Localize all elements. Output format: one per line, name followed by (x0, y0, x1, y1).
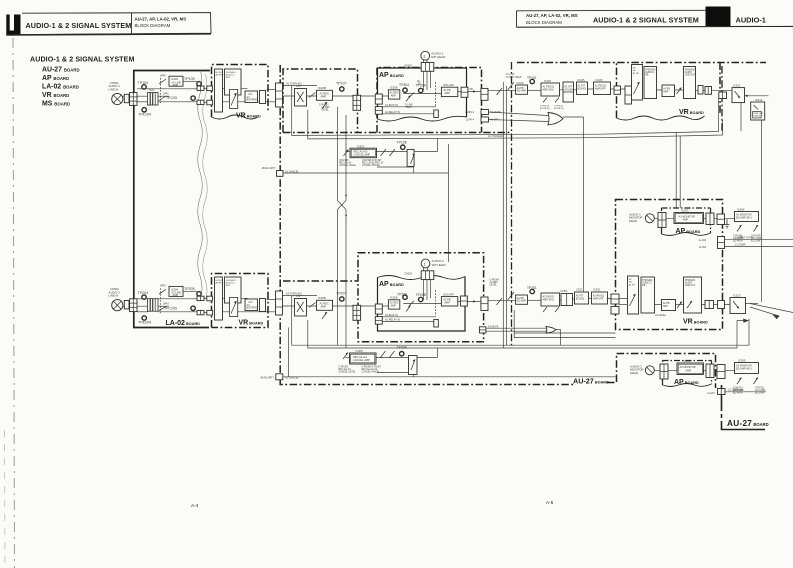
svg-text:JP42: JP42 (160, 285, 166, 288)
ground mon1 (725, 219, 730, 228)
connector AP1 out (461, 87, 468, 97)
svg-text:A2 REC: A2 REC (490, 281, 499, 284)
svg-text:JP41: JP41 (163, 93, 169, 96)
monitor1 out lines (725, 239, 793, 241)
labels monitor2 (630, 358, 766, 395)
svg-text:JP43: JP43 (163, 303, 169, 306)
rec-play head AUDIO-1 R/P HEAD (421, 51, 430, 62)
op-amp IC103 A1 PB EQ AMP MY (541, 83, 560, 96)
svg-text:AUDIO: AUDIO (685, 71, 692, 74)
svg-text:LINE IN: LINE IN (109, 87, 119, 91)
svg-text:REC A1+A2: REC A1+A2 (339, 161, 352, 164)
svg-text:A2 TURN-EQ: A2 TURN-EQ (286, 291, 302, 295)
svg-text:AMP (MY): AMP (MY) (543, 299, 555, 302)
svg-text:EQ AMP (MY): EQ AMP (MY) (736, 368, 752, 371)
svg-text:PB: PB (642, 285, 646, 287)
AP2 inner solid board (378, 277, 466, 332)
svg-text:L1-LP6: L1-LP6 (707, 393, 715, 395)
svg-text:IC106: IC106 (596, 78, 603, 82)
op-amp A1 PB AMP vr (662, 85, 675, 97)
connector CN201 (130, 299, 137, 312)
test point TP20B (419, 297, 423, 301)
svg-text:AU-27 BOARD: AU-27 BOARD (42, 67, 80, 74)
svg-text:AUDIO-1 & 2 SIGNAL SYSTEM: AUDIO-1 & 2 SIGNAL SYSTEM (30, 56, 134, 64)
selector AUDIO-1 PB block (644, 67, 657, 99)
op-amp IC204 A2 LINE AMP (169, 286, 183, 297)
svg-text:TP207: TP207 (336, 291, 347, 295)
test point TP105 (197, 82, 201, 86)
wire drops to monitor1 (675, 132, 677, 208)
svg-text:EQ AMP (MY): EQ AMP (MY) (736, 216, 752, 219)
svg-text:A2 COMP: A2 COMP (755, 389, 766, 392)
svg-text:A1 PB EQ: A1 PB EQ (554, 107, 564, 110)
switch line out select (677, 88, 682, 95)
svg-text:A2 RELAY IN: A2 RELAY IN (385, 319, 400, 322)
connector A2 cancel (276, 374, 283, 380)
svg-text:EQ LOW: EQ LOW (751, 241, 761, 243)
op-amp IC206 A2 REC AMP (388, 300, 399, 309)
svg-text:CN302: CN302 (404, 64, 412, 67)
svg-text:AP BOARD: AP BOARD (379, 281, 404, 288)
svg-text:AMP: AMP (663, 90, 669, 93)
selector AUDIO LINE OUT block (684, 67, 696, 99)
or-gate IC304 A2 mute (546, 327, 556, 333)
wire row2 VR segment (218, 297, 248, 299)
connector mon1 link (717, 214, 725, 225)
svg-text:AMP: AMP (686, 368, 692, 372)
potentiometer trims under IC203 (543, 307, 559, 312)
connector CN601 AUDIO-1 LINE IN (112, 93, 123, 104)
svg-text:CANCEL AMP: CANCEL AMP (354, 153, 371, 157)
svg-text:AMP (MY): AMP (MY) (543, 89, 555, 92)
connector J102 (197, 86, 204, 90)
svg-text:TP308: TP308 (397, 345, 407, 349)
trimmer block cancel (407, 149, 414, 166)
svg-text:LINE OUT: LINE OUT (685, 285, 696, 287)
labels row1 right (506, 73, 603, 110)
op-amp IC10B A1 REC AMP (317, 90, 333, 100)
svg-text:IC305: IC305 (356, 349, 363, 353)
svg-text:AUDIO-1: AUDIO-1 (226, 74, 236, 77)
connector A1 lpf in (481, 117, 489, 122)
svg-text:VR BOARD: VR BOARD (42, 92, 69, 99)
wire row2 to mid cluster (283, 295, 318, 297)
test point TP107 (340, 87, 344, 91)
selector AUDIO-1 REC block (225, 69, 242, 109)
test point TP308 (400, 352, 404, 356)
svg-text:LL/PA-4: LL/PA-4 (466, 119, 475, 122)
potentiometer line trap (406, 96, 411, 102)
level block A2 ATT (561, 294, 573, 306)
svg-text:A2 REC: A2 REC (216, 282, 224, 285)
svg-text:EQ LOW: EQ LOW (755, 393, 765, 395)
switch PB eq select2 (497, 292, 515, 305)
attenuator C302 A2 ATT ECHO (575, 292, 589, 304)
svg-text:TP105: TP105 (184, 77, 195, 81)
op-amp IC303 A1 MONITOR AMP (674, 213, 704, 224)
svg-text:A2 LEVEL: A2 LEVEL (655, 314, 667, 317)
svg-text:A1 PB: A1 PB (633, 72, 640, 75)
wire row1 right page (488, 89, 516, 91)
board dash top right page (517, 62, 766, 64)
labels cancel1 (262, 141, 407, 174)
relay dashed link2 (435, 290, 437, 316)
board outline monitor1 (616, 200, 723, 330)
svg-text:L1 INPUT ATTEN: L1 INPUT ATTEN (735, 237, 754, 240)
svg-text:A-4: A-4 (191, 503, 199, 508)
svg-text:PB: PB (470, 88, 474, 91)
svg-text:AMP: AMP (321, 304, 327, 308)
wire cancel2 row (346, 357, 350, 359)
svg-text:L1-304: L1-304 (699, 247, 707, 249)
monitor head AUDIO-1 (645, 214, 654, 223)
or-gate IC104 A1 mute (548, 113, 563, 125)
svg-text:CANCEL PHASE: CANCEL PHASE (362, 371, 380, 374)
svg-text:TP20B: TP20B (416, 293, 427, 297)
connector A1 mute in (481, 110, 489, 115)
capacitor bias box (434, 110, 439, 118)
svg-text:TPC05: TPC05 (166, 96, 177, 100)
svg-text:REC A2+A1 A2: REC A2+A1 A2 (362, 368, 378, 371)
potentiometer mon2 comp (737, 378, 758, 385)
svg-text:CANCEL LEVEL: CANCEL LEVEL (339, 371, 357, 374)
resistor block R602 (124, 301, 129, 309)
filter IC106 A1 PB EQ AMP LPF (594, 82, 611, 95)
black tab (706, 7, 731, 27)
connector CN4 (353, 95, 361, 110)
test point TP205 (197, 292, 201, 296)
test point TP108 (401, 145, 405, 149)
svg-text:A2 PB: A2 PB (629, 284, 636, 287)
filter IC302 A2 PB EQ AMP LPF (592, 292, 608, 304)
svg-text:L1 COMP: L1 COMP (735, 243, 746, 246)
svg-text:AUDIO-1: AUDIO-1 (736, 15, 766, 24)
switch PB eq select (497, 82, 515, 95)
buffer IC1 A1 BUFFER (245, 91, 258, 103)
svg-text:LA-02 BOARD: LA-02 BOARD (42, 84, 79, 91)
svg-text:IC105: IC105 (578, 78, 585, 82)
test point TPE104 (142, 108, 146, 112)
transformer T101 (148, 93, 159, 106)
svg-text:C302: C302 (576, 287, 583, 291)
svg-text:OSC+RP: OSC+RP (443, 83, 454, 87)
relay contact S201 (159, 288, 166, 313)
connector J311 (719, 92, 727, 99)
labels row2 right (527, 286, 600, 293)
svg-text:A1 BIAS IN: A1 BIAS IN (385, 104, 398, 107)
op-amp IC102 A1 LINE AMP (169, 76, 183, 87)
svg-text:LA-02 BOARD: LA-02 BOARD (166, 320, 201, 327)
AP2 bias lines (381, 316, 437, 318)
labels IC311 (733, 83, 763, 102)
page fold line (13, 38, 15, 568)
WIRES-LAYER (123, 71, 793, 392)
connector mon1 dc out (718, 237, 725, 249)
svg-text:AMP: AMP (663, 305, 669, 308)
test point TPC05 (191, 96, 195, 100)
svg-text:REC: REC (226, 285, 231, 287)
connector A2 mute in (479, 327, 486, 333)
AP mon1 inner board (662, 208, 711, 234)
labels row1 input (109, 75, 195, 117)
labels cancel2 (260, 345, 406, 379)
connector mon2 link (717, 365, 725, 379)
switch S2 (309, 303, 316, 308)
wire row1 VR segment (218, 87, 248, 89)
svg-text:CANCEL LEVEL: CANCEL LEVEL (339, 164, 357, 167)
board outline AP1 outer (377, 68, 482, 133)
svg-text:IC103: IC103 (544, 79, 551, 83)
svg-text:AB-RL-NRTY: AB-RL-NRTY (262, 167, 276, 170)
switch cancel2 phase (380, 351, 395, 358)
svg-text:TPC205: TPC205 (164, 306, 177, 310)
op-amp IC311 (732, 88, 745, 103)
connector J312 (718, 301, 725, 309)
svg-text:EQ HIGH: EQ HIGH (733, 393, 743, 395)
transistor block IC312 line out check (751, 102, 765, 120)
attenuator IC105 A1 ATT ECHO (577, 82, 588, 95)
svg-text:A2 CANCEL: A2 CANCEL (285, 376, 300, 379)
svg-text:A-5: A-5 (546, 500, 554, 505)
test point TPE204 (142, 316, 146, 320)
op-amp IC305 A2 MONITOR EQ AMP (735, 363, 759, 374)
labels row1 mid (286, 81, 347, 111)
switch line out select2 (677, 302, 682, 309)
vertical x448 (448, 144, 450, 262)
test point TP101 (530, 79, 534, 83)
connector J111 (625, 86, 632, 104)
svg-text:IC301: IC301 (561, 289, 568, 293)
op-amp IC202R A2 PB EQ AMP (516, 295, 528, 304)
svg-text:R/P HEAD: R/P HEAD (432, 263, 447, 267)
svg-text:AMP: AMP (173, 83, 179, 87)
bus pair lower (292, 296, 749, 345)
connector head CN302 (421, 63, 434, 72)
svg-text:TP201: TP201 (527, 286, 537, 290)
buffer IC2 A2 BUFFER (245, 299, 258, 311)
svg-text:TRAP: TRAP (406, 106, 413, 109)
connector CN4b (353, 305, 361, 320)
svg-text:A2 MUTE: A2 MUTE (488, 326, 499, 329)
monitor1 head rail (645, 217, 735, 219)
svg-text:A2 BIAS IN: A2 BIAS IN (385, 314, 398, 317)
connector AP1 in lower (375, 107, 382, 115)
svg-text:HEAD: HEAD (630, 371, 638, 375)
connector VR mon out (705, 301, 714, 309)
board outline AP2 outer (358, 253, 484, 342)
svg-text:OSC+RP: OSC+RP (443, 292, 454, 296)
svg-text:HEAD: HEAD (629, 219, 637, 223)
monitor head AUDIO-2 (645, 366, 654, 375)
connector mon2 head (660, 364, 668, 379)
connector AP2 in upper (375, 304, 382, 314)
board dash vertical x722 top (721, 66, 723, 132)
selector AUDIO-2 PB block (641, 277, 655, 313)
AU-27 bottom right corner frame (722, 385, 766, 430)
svg-text:A1 TURN-EQ: A1 TURN-EQ (286, 81, 302, 85)
vertical pair with crossover (337, 107, 339, 201)
svg-text:TPE104: TPE104 (138, 113, 151, 117)
svg-text:AP BOARD: AP BOARD (674, 379, 699, 386)
connector VR1R out (705, 87, 712, 95)
relay dashed link (435, 82, 437, 106)
potentiometer cancel level (344, 150, 349, 157)
svg-text:AMP: AMP (444, 302, 450, 305)
test point TP104b (403, 88, 407, 92)
potentiometer RV301 block (632, 65, 643, 101)
svg-text:LEVEL: LEVEL (490, 285, 498, 287)
monitor2 head rail (645, 369, 735, 371)
svg-text:A1 TURN-EQ: A1 TURN-EQ (488, 135, 503, 138)
switch REC/PB relay2 (409, 301, 414, 306)
svg-text:AUDIO-1 & 2 SIGNAL SYSTEM: AUDIO-1 & 2 SIGNAL SYSTEM (593, 15, 699, 24)
wire row2 right page (488, 299, 516, 301)
svg-text:AUDIO-1: AUDIO-1 (645, 71, 655, 74)
potentiometer RV302 block (628, 276, 639, 314)
header frame (6, 13, 211, 35)
svg-text:AMP: AMP (173, 293, 179, 297)
test point TP104 (142, 85, 146, 89)
AP mon2 inner board (663, 361, 712, 386)
potentiometer mon1 comp (737, 225, 758, 232)
svg-text:T101: T101 (149, 89, 155, 92)
junction dot AP2 (473, 301, 475, 303)
switch cancel phase (381, 149, 396, 156)
svg-text:A1 CANCEL: A1 CANCEL (285, 171, 300, 174)
potentiometer trims under IC103 (543, 98, 559, 103)
svg-text:AUDIO-2: AUDIO-2 (642, 282, 652, 285)
rec-play head AUDIO-2 R/P HEAD (421, 259, 430, 271)
connector J105 (207, 100, 213, 105)
svg-text:IC311: IC311 (733, 83, 741, 87)
svg-text:TP304: TP304 (399, 83, 409, 87)
connector J211 (611, 307, 619, 315)
connector CN602 AUDIO-2 LINE IN (112, 300, 123, 311)
labels row2 mid (286, 291, 347, 300)
svg-text:MS BOARD: MS BOARD (42, 101, 70, 108)
test point TP204b (403, 295, 407, 299)
op-amp OSC+RP A1 PB AMP (441, 87, 457, 96)
connector CN3b stack (276, 291, 283, 315)
vertical pair x503 (502, 82, 504, 348)
test point TP204 (142, 295, 146, 299)
svg-text:BUFFER: BUFFER (247, 306, 258, 310)
svg-text:TPE204: TPE204 (138, 321, 151, 325)
wire row2 top rail (123, 305, 149, 307)
connector CN3 stack (276, 83, 283, 107)
connector J203 (197, 310, 204, 314)
monitor2 out line (725, 391, 766, 393)
op-amp IC20B A2 REC AMP (317, 300, 333, 310)
op-amp IC102R A1 PB EQ AMP (516, 85, 528, 94)
wire row1 to mid cluster (283, 85, 318, 87)
svg-text:301: 301 (417, 82, 422, 85)
board outline mid cluster row2 (283, 280, 358, 282)
svg-text:TP204: TP204 (397, 292, 407, 296)
svg-text:TP104: TP104 (138, 81, 149, 85)
bus pair upper (292, 86, 719, 135)
svg-text:A1 PB EQ: A1 PB EQ (540, 107, 550, 110)
svg-text:REC A2+A1: REC A2+A1 (339, 368, 352, 371)
switch S1 (309, 93, 316, 98)
wire row2 mid rail (137, 311, 148, 313)
board outline VR1 left (212, 65, 269, 118)
misc wire labels (488, 135, 739, 392)
AP1 inner solid board (378, 68, 467, 119)
op-amp IC304 A1 MONITOR EQ AMP (735, 212, 759, 222)
connector A1 cancel (277, 171, 284, 177)
vertical x761 (761, 120, 763, 302)
svg-text:VR BOARD: VR BOARD (683, 319, 708, 326)
LA-02 torn edge wavy (198, 71, 203, 298)
svg-text:VR BOARD: VR BOARD (236, 113, 261, 120)
svg-text:AMP: AMP (391, 94, 397, 97)
connector J204 (207, 296, 213, 301)
op-amp A2 PB AMP vr (662, 300, 676, 311)
AP1 head drop wires (423, 71, 425, 90)
connector J110 (614, 86, 621, 94)
level block A1 ATT (563, 82, 574, 102)
svg-text:TP107: TP107 (336, 81, 347, 85)
board dash vertical x511 (511, 62, 513, 348)
potentiometer A2 REC adj (322, 312, 327, 319)
svg-text:AMP: AMP (391, 304, 397, 307)
svg-text:VR BOARD: VR BOARD (239, 320, 264, 327)
switch stack PB select (481, 88, 488, 100)
connector AP2 in lower (375, 317, 382, 325)
svg-text:AP BOARD: AP BOARD (676, 228, 701, 235)
logo U mark (6, 15, 20, 36)
test point TP10A (419, 88, 423, 92)
board outline monitor2 (617, 354, 716, 389)
connector VR2 out (260, 299, 266, 312)
relay contact S101 (159, 78, 166, 103)
wire row1 mid rail (137, 101, 148, 103)
connector mon1 out (706, 213, 714, 225)
svg-text:CHECK: CHECK (753, 116, 761, 118)
svg-text:LINE IN: LINE IN (109, 294, 119, 298)
mute wires row2 (486, 327, 546, 329)
svg-text:IC302: IC302 (593, 287, 600, 291)
svg-text:A1 MUTE: A1 MUTE (490, 111, 501, 114)
svg-text:CANCEL AMP: CANCEL AMP (353, 358, 370, 362)
svg-text:(ECHO): (ECHO) (578, 87, 587, 90)
svg-text:IC312: IC312 (755, 98, 763, 102)
potentiometer A1 REC adj (322, 102, 327, 109)
potentiometer RV101 (215, 69, 224, 112)
connector J210 (611, 294, 619, 304)
trimmer block cancel2 (409, 356, 418, 375)
board bottom dash row1 (283, 132, 511, 134)
connector AP1 in upper (375, 94, 382, 104)
potentiometer RV201 (215, 277, 224, 320)
switch REC/PB relay (409, 93, 414, 98)
labels row2 input (109, 285, 195, 325)
wire row2 output slants to edge (746, 303, 759, 305)
connector AP2 out (461, 296, 468, 306)
svg-text:L2 CONT: L2 CONT (728, 389, 739, 392)
svg-text:LEVEL: LEVEL (322, 109, 330, 111)
svg-text:TP101: TP101 (527, 76, 537, 80)
svg-text:AMP/LPF: AMP/LPF (595, 87, 606, 90)
svg-text:IC10B: IC10B (318, 86, 326, 90)
svg-text:IC303: IC303 (681, 208, 689, 212)
svg-text:IC306: IC306 (390, 86, 398, 90)
svg-text:L1-306: L1-306 (699, 240, 707, 242)
svg-text:(DOLBY): (DOLBY) (565, 88, 575, 91)
svg-text:CANCEL PHASE: CANCEL PHASE (362, 164, 380, 167)
svg-text:TP108: TP108 (397, 141, 407, 145)
